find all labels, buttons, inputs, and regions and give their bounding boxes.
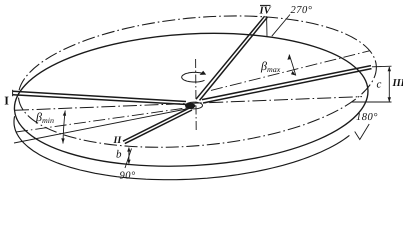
blade II (double edge lines): [123, 107, 191, 141]
blade tip trajectory ellipse (dash-dot): [13, 2, 382, 162]
diameter axis 0-180 (dash-dot): [15, 97, 362, 111]
beta_max angle arrow arc: [289, 55, 296, 76]
rotation axis (vertical dash-dot): [195, 59, 198, 131]
construction line D (solid, beta_min lower side): [14, 108, 194, 144]
blade IV (double edge lines): [196, 16, 265, 99]
blade I (double edge lines): [13, 91, 186, 101]
hub ellipse: [186, 102, 203, 109]
svg-text:I: I: [4, 93, 9, 107]
construction line C (dash-dot, beta_min upper side): [16, 107, 193, 132]
b dimension arrow (blade II tip height): [128, 148, 130, 164]
svg-text:90°: 90°: [120, 171, 137, 182]
rotation direction arrow (elliptical arc with arrowhead): [182, 72, 205, 82]
svg-text:βmax: βmax: [260, 59, 281, 74]
construction line L5 (dash-dot, beta_max upper side): [211, 51, 370, 91]
c dimension base line: [352, 101, 392, 103]
svg-text:IV: IV: [259, 6, 272, 17]
svg-text:c: c: [377, 79, 382, 91]
rim ellipse (disk top face, solid): [11, 24, 372, 175]
leader line from 270 deg label to rim: [272, 15, 290, 37]
overline of IV label: [260, 4, 271, 6]
svg-text:βmin: βmin: [35, 110, 54, 125]
disk bottom thickness edge: [14, 116, 349, 180]
leader line from 90 deg label to rim: [125, 149, 132, 169]
blade III (double edge lines): [202, 66, 371, 100]
svg-text:b: b: [116, 149, 122, 161]
svg-text:270°: 270°: [291, 5, 313, 16]
c dimension vertical line with arrows: [388, 67, 390, 102]
surface mark (check) near 180 deg: [355, 124, 370, 140]
height line at blade IV tip: [266, 16, 268, 36]
svg-text:II: II: [113, 135, 123, 146]
svg-text:180°: 180°: [356, 112, 378, 123]
svg-text:III: III: [392, 78, 403, 89]
c dimension: top tick from blade III tip: [372, 65, 392, 68]
beta_min angle arrow arc: [63, 111, 65, 144]
